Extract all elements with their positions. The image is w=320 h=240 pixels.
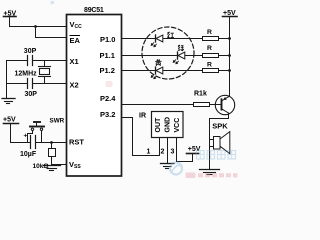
svg-text:RST: RST [69, 137, 84, 146]
svg-text:P1.2: P1.2 [100, 66, 115, 75]
svg-text:10µF: 10µF [20, 151, 37, 158]
svg-text:P2.4: P2.4 [100, 94, 116, 103]
svg-text:SWR: SWR [50, 118, 65, 125]
svg-text:OUT: OUT [155, 117, 162, 133]
svg-text:+5V: +5V [4, 10, 17, 17]
svg-text:R: R [207, 45, 212, 52]
svg-text:X2: X2 [70, 80, 79, 89]
svg-text:VCC: VCC [174, 118, 181, 133]
svg-text:89C51: 89C51 [84, 7, 104, 14]
svg-text:+5V: +5V [3, 117, 16, 124]
svg-text:SPK: SPK [212, 121, 228, 130]
svg-text:30P: 30P [24, 48, 37, 55]
svg-text:R: R [207, 29, 212, 36]
svg-text:P1.1: P1.1 [100, 51, 115, 60]
svg-text:R1k: R1k [194, 91, 207, 98]
svg-text:X1: X1 [70, 57, 79, 66]
svg-text:IR: IR [139, 113, 146, 120]
svg-text:EA: EA [70, 36, 81, 45]
svg-text:3: 3 [171, 149, 175, 156]
svg-text:+5V: +5V [188, 146, 201, 153]
svg-text:2: 2 [161, 149, 165, 156]
svg-text:R: R [207, 61, 212, 68]
svg-text:12MHz: 12MHz [15, 70, 38, 77]
svg-text:30P: 30P [25, 91, 38, 98]
svg-text:10kΩ: 10kΩ [33, 163, 49, 170]
svg-text:GND: GND [164, 117, 171, 133]
svg-text:+: + [24, 132, 28, 139]
svg-text:1: 1 [147, 149, 151, 156]
svg-text:+5V: +5V [223, 10, 236, 17]
svg-text:P3.2: P3.2 [100, 110, 115, 119]
svg-text:P1.0: P1.0 [100, 35, 115, 44]
